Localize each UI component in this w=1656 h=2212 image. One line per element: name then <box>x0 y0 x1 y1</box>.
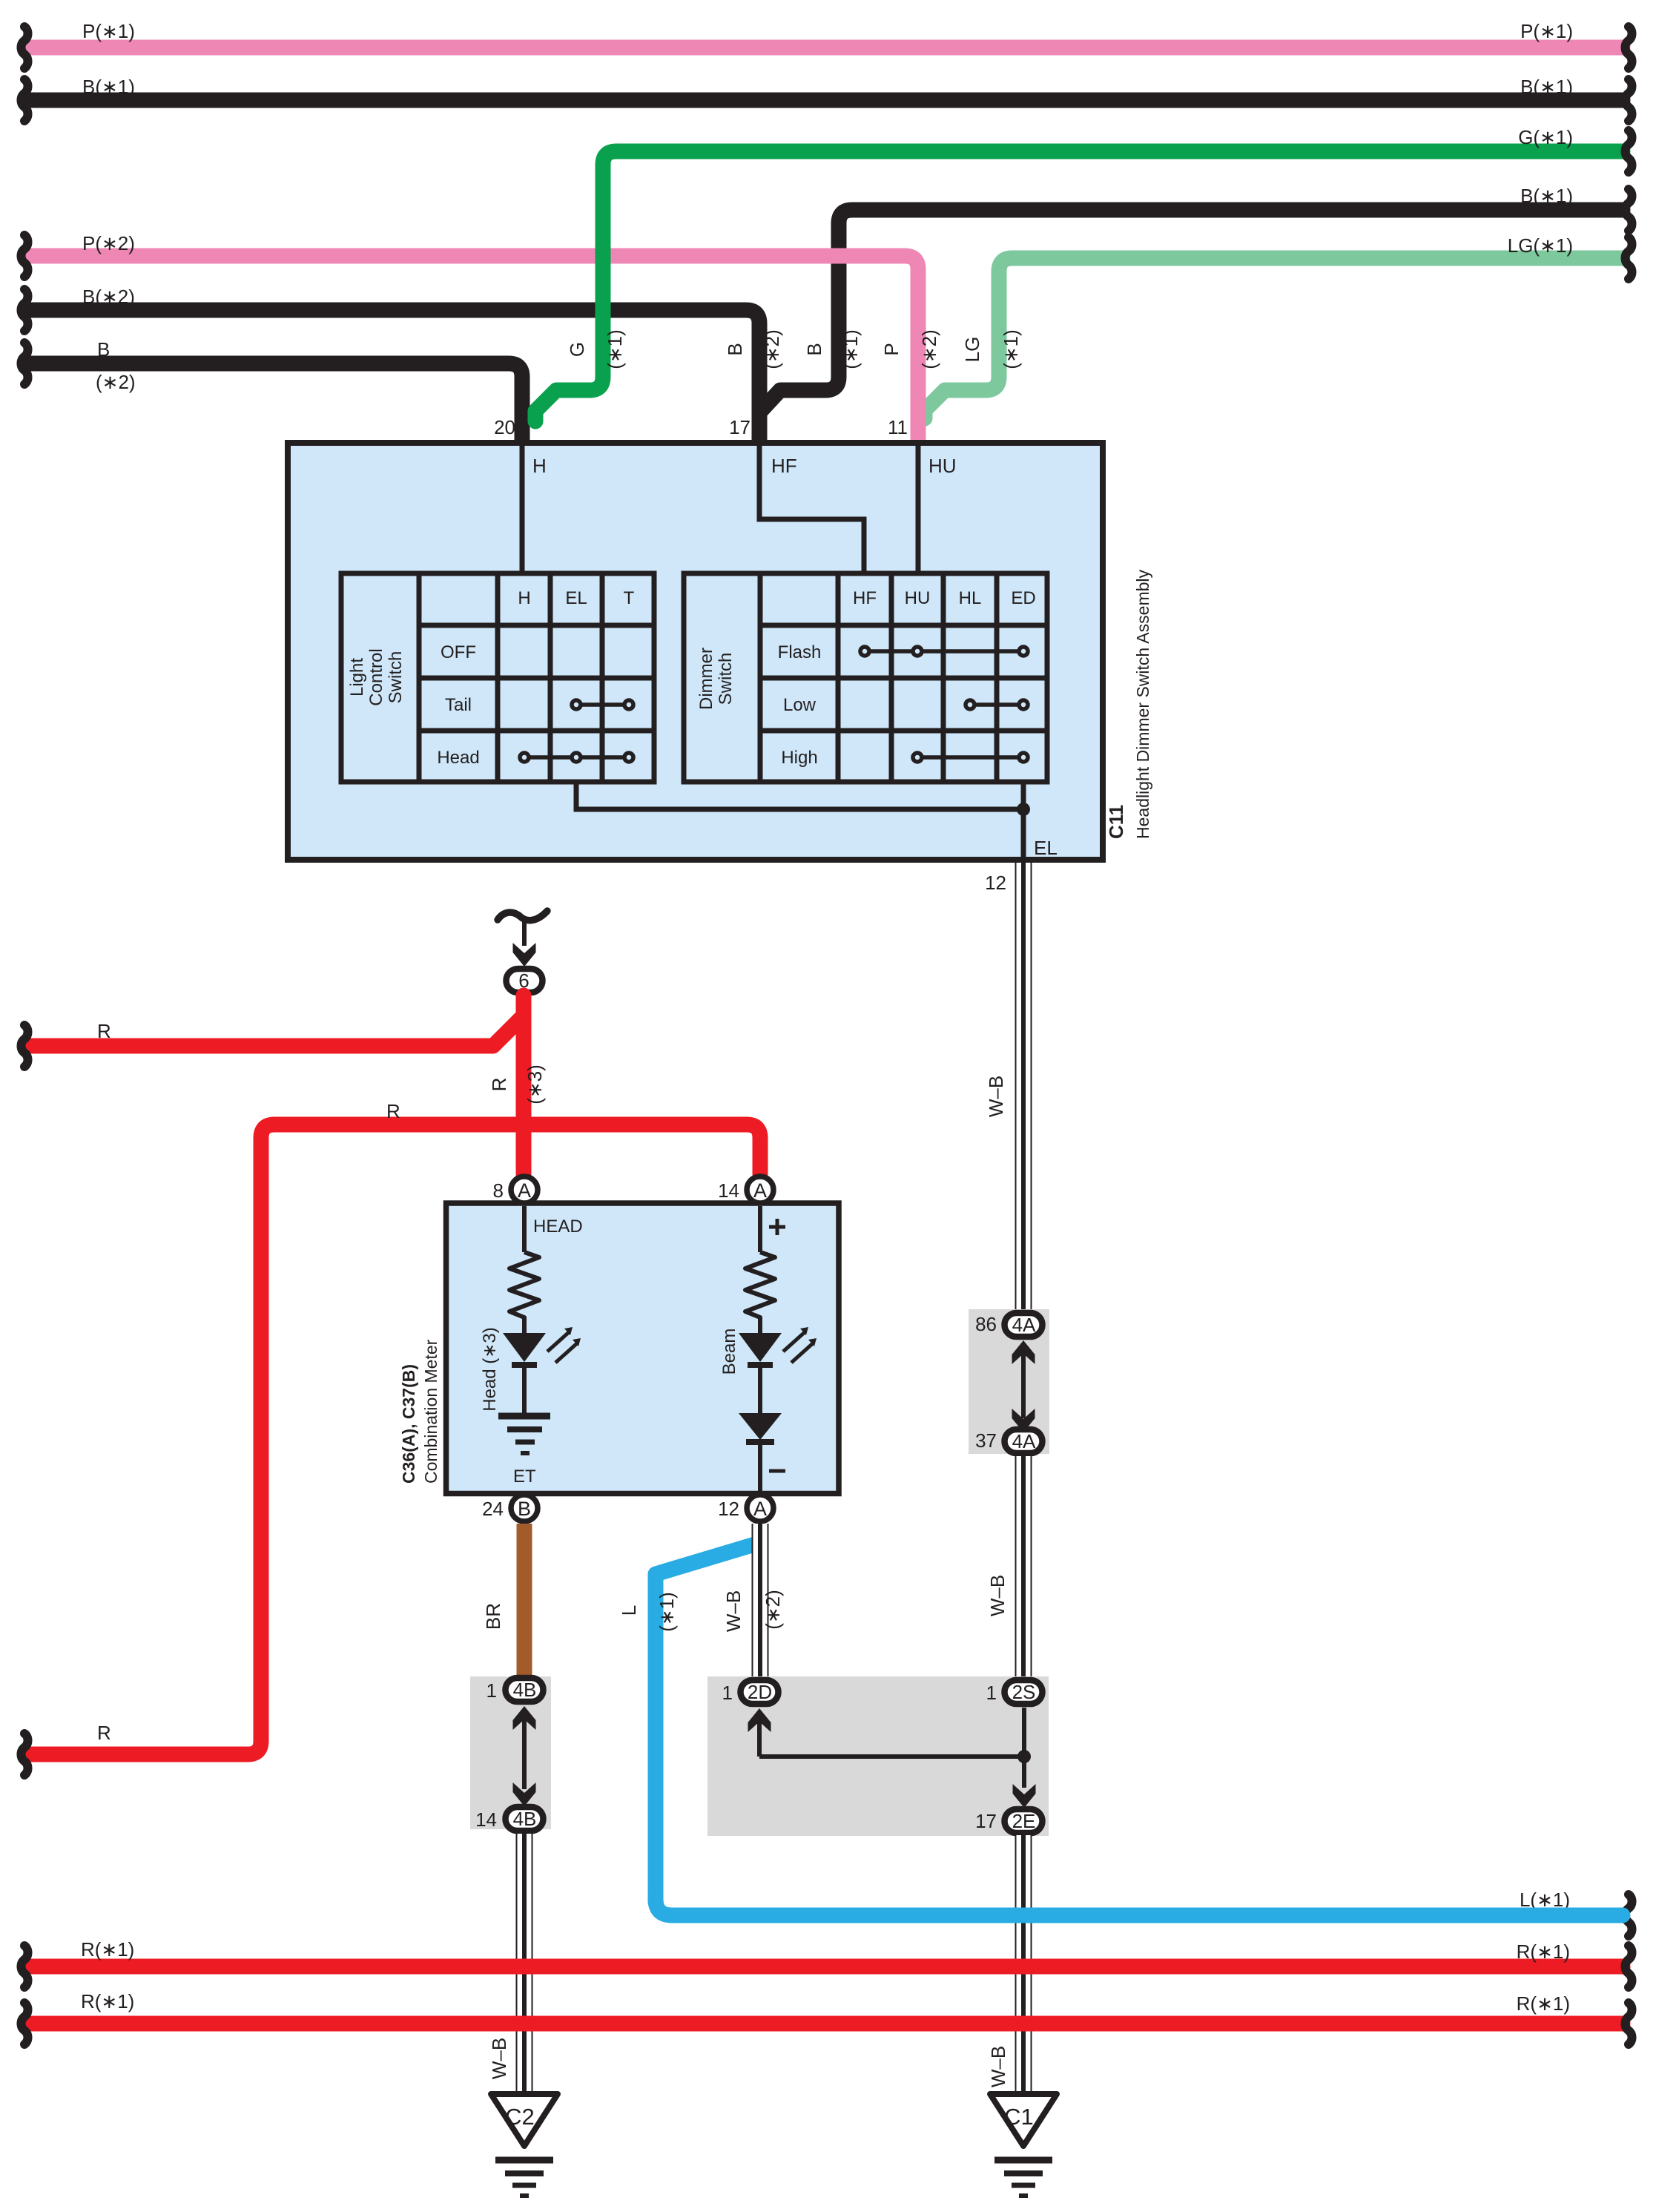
svg-text:W–B: W–B <box>986 1575 1009 1616</box>
diode to pin 12 <box>758 1442 762 1495</box>
wire pin 17 to HF column <box>759 445 864 576</box>
ground C2 <box>491 2094 558 2196</box>
svg-text:B(∗1): B(∗1) <box>1520 185 1573 207</box>
combination meter box <box>446 1203 839 1494</box>
wire R(*3) vertical from tap 6 to pin 8 <box>516 995 532 1174</box>
wire R(*1) bottom second <box>31 2016 1623 2032</box>
svg-text:4A: 4A <box>1012 1430 1036 1452</box>
svg-text:(∗2): (∗2) <box>761 329 783 369</box>
head LED to internal ground <box>522 1365 527 1414</box>
connector oval 2D <box>741 1680 779 1704</box>
svg-text:High: High <box>781 748 817 768</box>
svg-text:24: 24 <box>482 1498 504 1520</box>
braces bottom right R lines <box>1626 1946 1632 1987</box>
svg-text:(∗3): (∗3) <box>524 1064 546 1105</box>
svg-text:2E: 2E <box>1012 1810 1036 1832</box>
wire R(*1) bottom first <box>31 1959 1623 1975</box>
svg-text:1: 1 <box>986 1682 997 1704</box>
switch assembly box C11 <box>288 443 1103 860</box>
wire P(*1) top horizontal <box>31 40 1623 56</box>
meter pin 12 A <box>747 1495 773 1521</box>
svg-text:H: H <box>518 588 530 608</box>
svg-text:(∗1): (∗1) <box>604 329 626 369</box>
wire 2S to junction <box>1022 1708 1026 1757</box>
svg-text:P(∗2): P(∗2) <box>82 232 135 254</box>
svg-text:20: 20 <box>494 416 515 438</box>
connector block 2D/2S/2E grey box <box>707 1676 1049 1836</box>
arrow up into 4B <box>522 1712 527 1789</box>
svg-text:2S: 2S <box>1012 1681 1036 1703</box>
svg-text:P(∗1): P(∗1) <box>82 20 135 42</box>
svg-text:W–B: W–B <box>488 2038 510 2079</box>
svg-text:HF: HF <box>771 455 797 477</box>
svg-text:C11: C11 <box>1105 805 1127 839</box>
svg-text:R(∗1): R(∗1) <box>81 1938 134 1961</box>
dimmer switch table <box>684 573 1047 782</box>
svg-text:P: P <box>880 343 903 355</box>
arrow up into 2D <box>757 1712 762 1757</box>
diode beam <box>739 1413 782 1440</box>
arrow down into 4A lower <box>1012 1409 1035 1432</box>
svg-text:R: R <box>97 1722 111 1744</box>
wire BR from pin 24 to 4B <box>517 1524 532 1676</box>
svg-text:Beam: Beam <box>719 1329 739 1375</box>
svg-text:C2: C2 <box>505 2104 535 2130</box>
svg-text:T: T <box>624 588 635 608</box>
connector oval 2E <box>1005 1809 1043 1833</box>
svg-text:R: R <box>488 1078 510 1092</box>
svg-text:C36(A), C37(B): C36(A), C37(B) <box>399 1364 418 1484</box>
wire P(*2) into pin 11 <box>31 256 918 445</box>
LED head indicator <box>503 1333 546 1362</box>
brace left R bottom <box>22 1734 28 1775</box>
svg-text:2D: 2D <box>748 1681 772 1703</box>
wire W-B from 4A to connector 2S <box>1015 1456 1032 1679</box>
svg-text:1: 1 <box>722 1682 733 1704</box>
ground C1 <box>990 2094 1057 2196</box>
pin name + <box>769 1219 785 1235</box>
wire R upper from left <box>31 1016 524 1046</box>
wire B(*2) into pin 20 <box>31 363 522 445</box>
svg-text:W–B: W–B <box>722 1590 745 1632</box>
svg-text:B: B <box>97 338 110 361</box>
svg-text:LG: LG <box>961 337 983 363</box>
svg-text:Switch: Switch <box>716 653 736 705</box>
svg-text:Headlight Dimmer Switch Assemb: Headlight Dimmer Switch Assembly <box>1133 569 1152 839</box>
brace right L <box>1626 1895 1632 1936</box>
svg-text:LG(∗1): LG(∗1) <box>1508 234 1573 257</box>
svg-text:17: 17 <box>729 416 751 438</box>
svg-text:Combination Meter: Combination Meter <box>421 1339 441 1484</box>
connector oval 4A lower <box>1005 1429 1043 1453</box>
LED beam indicator <box>739 1333 782 1362</box>
svg-text:(∗2): (∗2) <box>918 329 940 369</box>
svg-text:12: 12 <box>985 872 1006 894</box>
meter pin 8 A <box>511 1176 538 1203</box>
svg-text:Control: Control <box>366 648 386 705</box>
svg-text:Low: Low <box>783 695 817 715</box>
fuse tap oval 6 <box>507 969 543 993</box>
wire W-B from 2E to ground C1 <box>1015 1835 1032 2096</box>
arrow down into 4B lower <box>513 1783 536 1806</box>
svg-text:(∗1): (∗1) <box>656 1592 678 1632</box>
feed stem <box>522 921 527 946</box>
EL net wire from light control switch <box>576 782 1023 809</box>
meter pin 24 B <box>511 1495 538 1521</box>
brace right B(*1) lower <box>1626 189 1632 231</box>
svg-text:Light: Light <box>347 658 367 697</box>
svg-text:8: 8 <box>493 1179 504 1202</box>
svg-text:(∗1): (∗1) <box>839 329 862 369</box>
svg-text:W–B: W–B <box>985 1076 1007 1117</box>
braces bottom left R lines <box>22 1946 28 1987</box>
wire B(*1) right: horizontal + vertical + jog into pin 17 <box>761 210 1623 411</box>
svg-text:HF: HF <box>853 588 877 608</box>
feed arrow into fuse tap 6 <box>513 943 536 967</box>
connector oval 4A upper <box>1005 1313 1043 1337</box>
svg-text:OFF: OFF <box>441 642 476 662</box>
wire R loop: left brace to pin 14 <box>31 1125 760 1754</box>
wire L(*1) blue riser <box>656 1545 752 1902</box>
wire W-B from EL pin 12 to connector 4A <box>1015 863 1032 1311</box>
svg-text:R(∗1): R(∗1) <box>81 1990 134 2012</box>
wire W-B (*2) from pin 12 to 2D <box>752 1524 769 1679</box>
brace left P(*1) <box>22 27 28 68</box>
svg-text:14: 14 <box>475 1808 497 1831</box>
svg-text:R: R <box>97 1020 111 1042</box>
wire W-B from 4B to ground C2 <box>516 1834 533 2096</box>
power feed squiggle symbol <box>498 911 547 921</box>
connector block 4B grey box <box>470 1676 551 1829</box>
brace right LG(*1) <box>1626 237 1632 279</box>
svg-text:A: A <box>753 1498 767 1520</box>
Head row contact H-EL-T <box>520 753 633 762</box>
wire 2D to junction <box>759 1754 1024 1759</box>
svg-text:4B: 4B <box>513 1679 537 1701</box>
svg-text:G: G <box>566 342 588 357</box>
wire G(*1) into pin 20 <box>535 151 1623 421</box>
svg-text:EL: EL <box>565 588 587 608</box>
wire LG(*1) into pin 11 <box>925 258 1623 418</box>
wire L(*1) blue horizontal <box>656 1899 1623 1915</box>
svg-text:Flash: Flash <box>778 642 822 662</box>
svg-text:4B: 4B <box>513 1808 537 1830</box>
svg-text:Dimmer: Dimmer <box>696 648 716 710</box>
svg-text:A: A <box>753 1179 767 1202</box>
svg-text:12: 12 <box>718 1498 739 1520</box>
meter pin 14 A <box>747 1176 773 1203</box>
arrow down into 2E <box>1013 1784 1036 1808</box>
brace right G(*1) <box>1626 131 1632 172</box>
junction node 2S-2E <box>1017 1750 1031 1763</box>
svg-text:A: A <box>518 1179 531 1202</box>
pin name minus <box>769 1469 785 1473</box>
svg-text:HU: HU <box>905 588 931 608</box>
svg-text:Head (∗3): Head (∗3) <box>480 1327 500 1411</box>
svg-text:HEAD: HEAD <box>533 1217 583 1237</box>
wire pin 20 to H column <box>520 445 525 576</box>
svg-text:ED: ED <box>1011 588 1035 608</box>
svg-text:HU: HU <box>928 455 957 477</box>
LED beam emission arrows <box>783 1332 813 1363</box>
ED column wire down to EL pin <box>1021 782 1026 860</box>
svg-text:(∗2): (∗2) <box>762 1590 784 1630</box>
svg-text:B(∗2): B(∗2) <box>82 286 135 308</box>
connector oval 4B lower <box>506 1807 544 1831</box>
svg-text:P(∗1): P(∗1) <box>1520 20 1573 42</box>
brace right P(*1) <box>1626 27 1632 68</box>
svg-text:R: R <box>386 1100 400 1122</box>
wire pin 11 to HU column <box>916 445 921 576</box>
brace left B(*2) lower <box>22 343 28 384</box>
svg-text:H: H <box>532 455 547 477</box>
svg-text:Head: Head <box>437 748 479 768</box>
svg-text:Switch: Switch <box>386 651 406 704</box>
svg-text:L: L <box>618 1605 640 1616</box>
svg-text:B(∗1): B(∗1) <box>82 76 135 98</box>
svg-text:EL: EL <box>1034 837 1058 859</box>
Tail row contact EL-T <box>572 700 633 709</box>
arrow up into 4A <box>1021 1347 1026 1418</box>
light control switch table <box>341 573 654 782</box>
wire B(*2) into pin 17 <box>31 310 759 445</box>
svg-text:11: 11 <box>888 416 908 438</box>
internal ground head <box>498 1416 550 1453</box>
svg-text:37: 37 <box>975 1429 997 1452</box>
resistor beam <box>745 1252 775 1333</box>
Low row contact HL-ED <box>966 700 1028 709</box>
svg-text:C1: C1 <box>1004 2104 1034 2130</box>
brace left P(*2) <box>22 235 28 277</box>
resistor head <box>509 1252 539 1333</box>
beam LED to diode <box>758 1365 762 1413</box>
LED head emission arrows <box>547 1332 577 1363</box>
svg-text:HL: HL <box>959 588 982 608</box>
svg-text:4A: 4A <box>1012 1314 1036 1336</box>
junction EL node <box>1017 803 1030 816</box>
svg-text:ET: ET <box>513 1467 536 1487</box>
svg-text:17: 17 <box>975 1810 997 1832</box>
svg-text:R(∗1): R(∗1) <box>1517 1941 1570 1963</box>
svg-text:86: 86 <box>975 1313 997 1335</box>
svg-text:B: B <box>724 343 746 355</box>
svg-text:1: 1 <box>486 1679 497 1702</box>
head branch lead <box>522 1206 527 1252</box>
svg-text:B: B <box>518 1498 531 1520</box>
connector oval 2S <box>1005 1680 1043 1704</box>
brace right B(*1) <box>1626 79 1632 121</box>
svg-text:Tail: Tail <box>445 695 472 715</box>
beam branch lead <box>758 1206 762 1252</box>
svg-text:(∗1): (∗1) <box>1000 329 1022 369</box>
svg-text:BR: BR <box>482 1603 504 1630</box>
wire B(*1) top horizontal <box>31 93 1623 108</box>
connector block 4A grey box <box>969 1309 1049 1454</box>
brace left B(*2) <box>22 289 28 331</box>
brace left R upper <box>22 1025 28 1067</box>
svg-text:14: 14 <box>718 1179 739 1202</box>
svg-text:W–B: W–B <box>987 2046 1009 2087</box>
Flash row contact HF-HU-ED <box>860 647 1028 656</box>
svg-text:R(∗1): R(∗1) <box>1517 1992 1570 2015</box>
brace left B(*1) <box>22 79 28 121</box>
svg-text:B: B <box>803 343 825 355</box>
svg-text:(∗2): (∗2) <box>96 371 136 393</box>
High row contact HU-ED <box>913 753 1028 762</box>
svg-text:G(∗1): G(∗1) <box>1518 126 1573 148</box>
connector oval 4B upper <box>506 1678 544 1702</box>
svg-text:B(∗1): B(∗1) <box>1520 76 1573 98</box>
wire junction to 2E <box>1022 1757 1026 1788</box>
